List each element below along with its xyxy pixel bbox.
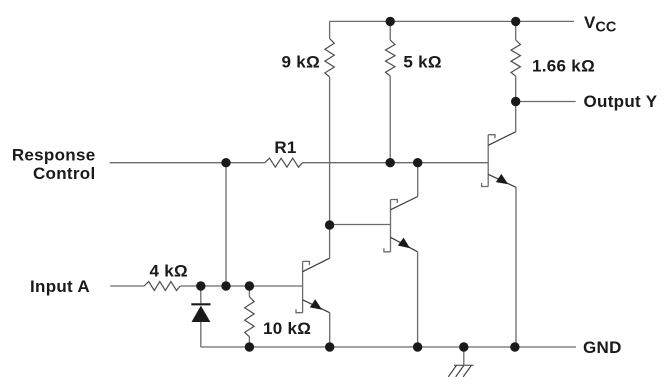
svg-text:R1: R1 [274, 138, 296, 157]
transistor Q1 [296, 258, 330, 313]
resistor 5 kOhm [386, 40, 395, 76]
transistor Q3 [482, 132, 516, 188]
wire Q1 emitter to GND [329, 313, 331, 347]
wire 10k bottom lead [248, 337, 250, 347]
svg-text:Output Y: Output Y [584, 92, 658, 111]
wire 9k top lead [329, 21, 331, 38]
node control branch / Input A [221, 281, 230, 290]
wire Q3 emitter to GND [515, 187, 517, 347]
wire VCC top rail [330, 20, 574, 22]
svg-text:Input A: Input A [30, 277, 90, 296]
node Q2 emitter / GND [413, 342, 422, 351]
node 10k top [245, 281, 254, 290]
node Q2 collector [413, 158, 422, 167]
wire GND bottom rail [201, 346, 576, 348]
node Q3 emitter / GND [510, 342, 519, 351]
wire Input A lead [110, 285, 144, 287]
transistor Q2 [384, 197, 418, 252]
svg-text:1.66 kΩ: 1.66 kΩ [532, 56, 595, 75]
wire 1.66k top lead [515, 21, 517, 40]
wire Response Control lead [110, 162, 265, 164]
wire 5k top lead [389, 21, 391, 40]
node Response Control branch [221, 158, 230, 167]
wire R1 to Q3 base [303, 162, 489, 164]
svg-text:Response: Response [12, 145, 96, 164]
wire Q2 base [330, 224, 391, 226]
wire 9k bottom to Q1 collector node [329, 77, 331, 258]
node ground symbol [459, 342, 468, 351]
wire 4k to Q1 base [180, 285, 302, 287]
wire 1.66k bottom lead [515, 76, 517, 101]
svg-text:Control: Control [33, 164, 96, 183]
ground [448, 347, 473, 377]
svg-text:VCC: VCC [584, 13, 617, 36]
node 1.66k/VCC rail [511, 17, 520, 26]
wire diode top lead [200, 286, 202, 303]
node Q2 base / Q1 collector [325, 220, 334, 229]
wire diode bottom lead [200, 322, 202, 347]
node 5k/VCC rail [386, 17, 395, 26]
node diode / Input A [196, 281, 205, 290]
svg-text:GND: GND [583, 338, 622, 357]
node Q1 emitter / GND [325, 342, 334, 351]
node 10k bottom [245, 342, 254, 351]
svg-text:10 kΩ: 10 kΩ [263, 319, 311, 338]
svg-text:5 kΩ: 5 kΩ [403, 52, 441, 71]
node Output Y [511, 97, 520, 106]
node 5k bottom [386, 158, 395, 167]
svg-text:9 kΩ: 9 kΩ [282, 52, 320, 71]
resistor R1 [265, 158, 303, 167]
svg-text:4 kΩ: 4 kΩ [150, 262, 188, 281]
resistor 9 kOhm [325, 39, 334, 78]
diode D1 [191, 304, 210, 322]
wire 5k bottom lead [389, 76, 391, 163]
wire Q2 emitter to GND [417, 252, 419, 347]
wire 10k top lead [248, 286, 250, 297]
resistor 1.66 kOhm [511, 40, 520, 76]
resistor 4 kOhm [144, 282, 180, 291]
wire Q2 collector lead [417, 163, 419, 197]
resistor 10 kOhm [245, 297, 254, 337]
wire to Output Y [516, 101, 576, 103]
wire Q3 collector lead [515, 102, 517, 132]
wire node to Input A rail [225, 163, 227, 286]
